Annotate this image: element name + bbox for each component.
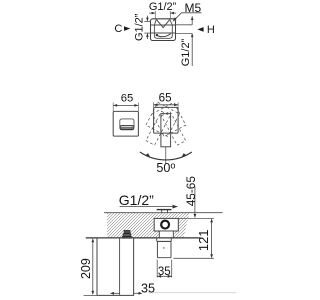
svg-text:H: H bbox=[207, 24, 215, 36]
svg-text:50o: 50o bbox=[156, 161, 175, 175]
svg-text:C: C bbox=[114, 23, 122, 35]
svg-text:35: 35 bbox=[141, 282, 155, 296]
svg-text:G1/2”: G1/2” bbox=[119, 192, 154, 208]
svg-text:45-65: 45-65 bbox=[184, 176, 198, 207]
svg-text:G1/2”: G1/2” bbox=[149, 1, 177, 13]
svg-text:65: 65 bbox=[159, 92, 172, 105]
svg-text:121: 121 bbox=[196, 229, 211, 251]
svg-text:G1/2”: G1/2” bbox=[180, 38, 192, 66]
svg-text:G1/2”: G1/2” bbox=[134, 13, 146, 41]
svg-text:M5: M5 bbox=[184, 1, 201, 15]
svg-text:65: 65 bbox=[121, 93, 134, 105]
svg-text:209: 209 bbox=[79, 258, 93, 279]
svg-text:35: 35 bbox=[158, 266, 171, 278]
